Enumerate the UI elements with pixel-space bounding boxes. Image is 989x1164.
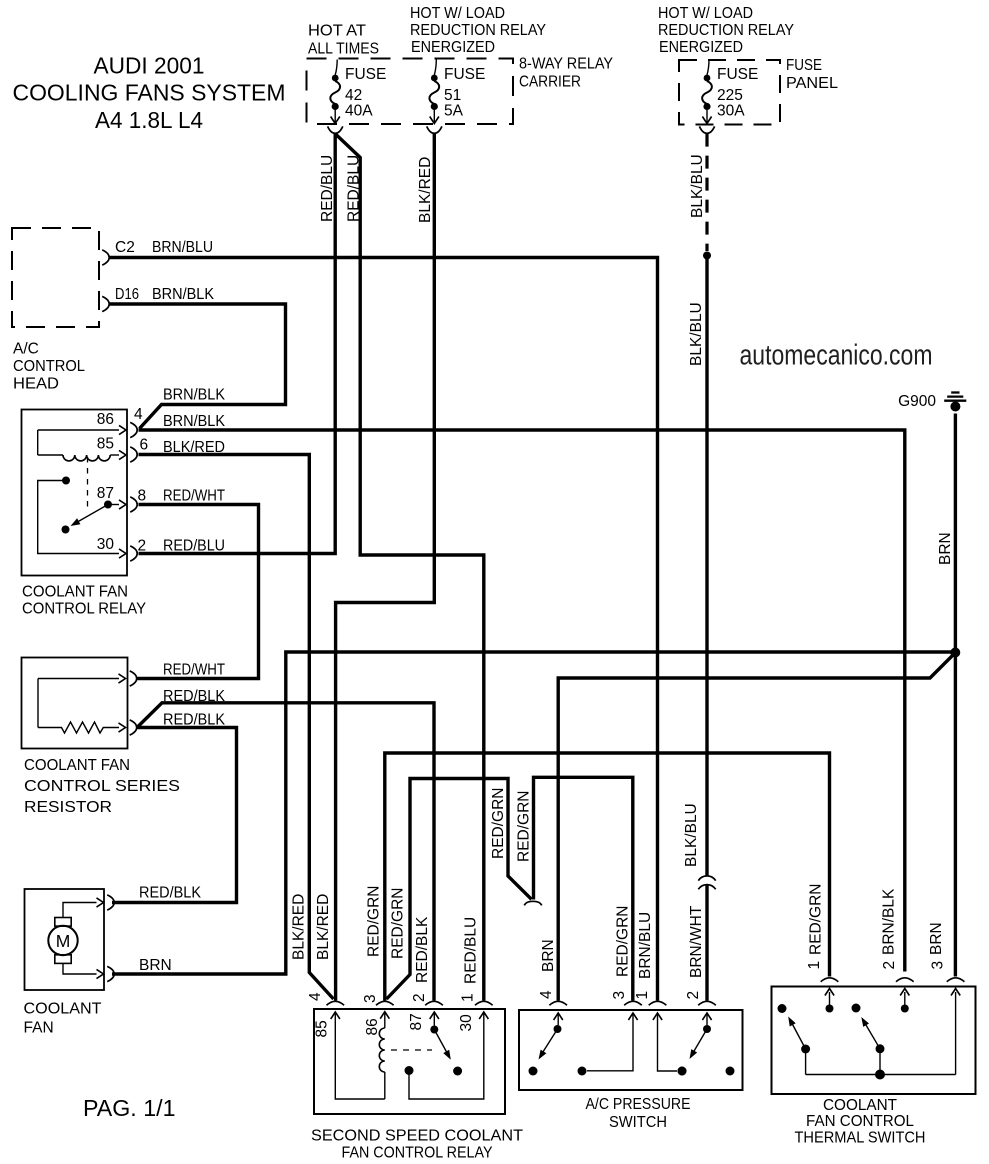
wire RED/BLU fuse42 branch to 2nd relay pin1 xyxy=(336,135,484,1001)
wire D16 BRN/BLK a/c head to relay pin4 xyxy=(109,304,286,429)
svg-text:RED/BLK: RED/BLK xyxy=(139,885,202,902)
svg-text:COOLANT: COOLANT xyxy=(24,1001,103,1018)
fan motor M xyxy=(48,926,77,955)
2nd relay pin2 connector xyxy=(425,1001,443,1005)
svg-text:FUSE: FUSE xyxy=(786,57,822,74)
ground G900 symbol xyxy=(951,391,959,393)
svg-text:G900: G900 xyxy=(898,393,936,410)
svg-text:FAN CONTROL: FAN CONTROL xyxy=(806,1113,914,1130)
second speed relay box xyxy=(314,1009,505,1114)
relay contact 30 path xyxy=(62,477,70,485)
2nd relay switch 87 xyxy=(430,1012,439,1019)
thermal pin3 connector xyxy=(947,978,965,982)
svg-text:ALL TIMES: ALL TIMES xyxy=(308,41,379,58)
svg-text:4: 4 xyxy=(134,406,143,423)
thermal switch arm 2 xyxy=(876,1044,885,1053)
svg-text:CONTROL SERIES: CONTROL SERIES xyxy=(24,778,180,795)
svg-text:2: 2 xyxy=(685,991,702,1000)
wire BRN junction to thermal switch pin3 xyxy=(954,655,957,977)
wire BLK/RED fuse51 to 2nd relay pin4 xyxy=(336,134,435,1001)
thermal pin2 terminal xyxy=(901,1005,909,1013)
relay coil row 85 with coil xyxy=(37,430,39,455)
svg-text:RED/WHT: RED/WHT xyxy=(163,662,225,679)
connector C2 xyxy=(102,250,109,265)
svg-text:4: 4 xyxy=(307,992,324,1001)
svg-text:85: 85 xyxy=(97,436,114,453)
svg-text:BRN: BRN xyxy=(139,957,172,974)
relay armature dashed link xyxy=(87,457,89,512)
resistor pin1 row xyxy=(38,678,119,680)
junction dot BLK/BLU xyxy=(703,252,711,260)
8-way relay carrier box xyxy=(307,59,514,125)
svg-text:225: 225 xyxy=(717,87,743,104)
svg-text:D16: D16 xyxy=(115,286,139,303)
pressure switch pin1 path xyxy=(653,1013,662,1020)
svg-text:FAN: FAN xyxy=(24,1020,54,1037)
fuse panel box xyxy=(679,60,780,125)
svg-text:AUDI 2001: AUDI 2001 xyxy=(94,53,205,79)
svg-text:RED/BLU: RED/BLU xyxy=(346,155,363,222)
svg-text:CARRIER: CARRIER xyxy=(519,74,581,91)
svg-text:4: 4 xyxy=(538,990,555,999)
2nd relay coil 86 xyxy=(380,1012,389,1019)
2nd relay pin1 connector xyxy=(475,1001,493,1005)
relay pin8 connector xyxy=(130,497,137,512)
svg-text:3: 3 xyxy=(611,991,628,1000)
pressure pin4 connector xyxy=(549,1001,567,1005)
coolant fan control relay box xyxy=(22,410,128,576)
svg-text:REDUCTION RELAY: REDUCTION RELAY xyxy=(658,22,794,39)
svg-text:BRN: BRN xyxy=(928,922,945,955)
svg-text:30: 30 xyxy=(458,1014,475,1032)
connector below fuse 42 xyxy=(328,126,343,133)
svg-text:1: 1 xyxy=(634,991,651,1000)
thermal switch contact dot a xyxy=(778,1004,787,1013)
pressure switch pin4 arm xyxy=(554,1013,563,1020)
svg-text:6: 6 xyxy=(140,437,149,454)
svg-text:REDUCTION RELAY: REDUCTION RELAY xyxy=(410,22,546,39)
svg-text:COOLANT: COOLANT xyxy=(823,1097,898,1114)
svg-text:CONTROL RELAY: CONTROL RELAY xyxy=(22,601,146,618)
svg-text:42: 42 xyxy=(345,87,362,104)
resistor pin1 connector xyxy=(130,671,137,686)
svg-text:FUSE: FUSE xyxy=(345,66,386,83)
svg-text:BLK/BLU: BLK/BLU xyxy=(689,154,706,218)
wire BRN coolant fan pin2 to ground junction xyxy=(112,652,953,974)
wire BLK/BLU fuse225 solid to inline connector xyxy=(705,256,708,876)
svg-text:THERMAL SWITCH: THERMAL SWITCH xyxy=(795,1130,926,1147)
svg-text:RED/GRN: RED/GRN xyxy=(366,886,383,957)
wire BLK/BLU fuse225 (dashed segment) xyxy=(705,134,708,251)
resistor element row xyxy=(37,679,39,728)
svg-text:3: 3 xyxy=(930,961,947,970)
fan pin1 lead xyxy=(63,903,97,918)
wire RED/BLK series resistor pin2 to 2nd relay pin2 (upper) xyxy=(138,703,434,1001)
svg-text:BRN/BLK: BRN/BLK xyxy=(152,286,215,303)
wire BLK/RED relay pin6 to 2nd relay pin4 xyxy=(139,455,334,1000)
coolant fan control series resistor box xyxy=(22,658,128,749)
svg-text:BLK/BLU: BLK/BLU xyxy=(683,803,700,867)
a/c control head box xyxy=(12,228,99,327)
wire C2 BRN/BLU a/c head to pressure switch pin1 xyxy=(109,258,658,1001)
svg-text:2: 2 xyxy=(881,961,898,970)
svg-text:RED/BLU: RED/BLU xyxy=(163,538,225,555)
2nd relay pin3 connector xyxy=(376,1001,394,1005)
svg-text:86: 86 xyxy=(364,1018,381,1035)
svg-text:30: 30 xyxy=(97,536,115,553)
relay coil terminal 86 row xyxy=(38,429,119,431)
svg-text:A4 1.8L L4: A4 1.8L L4 xyxy=(95,107,203,133)
pressure switch pin2 arm xyxy=(702,1013,711,1020)
svg-text:RED/GRN: RED/GRN xyxy=(615,906,632,977)
svg-text:BLK/BLU: BLK/BLU xyxy=(688,302,705,366)
svg-text:ENERGIZED: ENERGIZED xyxy=(659,39,743,56)
fan pin2 lead xyxy=(63,963,97,974)
svg-text:BLK/RED: BLK/RED xyxy=(163,439,225,456)
pressure pin1 connector xyxy=(649,1001,667,1005)
svg-text:FUSE: FUSE xyxy=(444,66,485,83)
svg-text:FUSE: FUSE xyxy=(717,66,758,83)
thermal pin2 connector xyxy=(896,978,914,982)
svg-text:PANEL: PANEL xyxy=(786,75,838,92)
svg-text:8: 8 xyxy=(138,488,147,505)
svg-text:HOT AT: HOT AT xyxy=(308,23,367,40)
thermal switch arm 1 xyxy=(801,1045,810,1054)
connector below fuse 51 xyxy=(427,126,442,133)
svg-text:8-WAY RELAY: 8-WAY RELAY xyxy=(519,56,613,73)
inline connector on BLK/BLU wire xyxy=(698,876,715,881)
fuse 42 40A xyxy=(335,60,337,76)
svg-text:BRN/BLK: BRN/BLK xyxy=(163,413,226,430)
svg-text:RED/GRN: RED/GRN xyxy=(516,791,533,862)
svg-text:BRN/WHT: BRN/WHT xyxy=(688,905,705,978)
svg-text:BLK/RED: BLK/RED xyxy=(315,894,332,960)
svg-text:40A: 40A xyxy=(345,103,373,120)
thermal switch box xyxy=(772,987,976,1095)
wire BRN junction to pressure switch pin4 xyxy=(558,655,953,1001)
2nd relay 85 terminal xyxy=(331,1012,340,1019)
relay pin2 connector xyxy=(130,546,137,561)
svg-text:87: 87 xyxy=(408,1013,425,1030)
wire BRN G900 to junction xyxy=(954,414,957,651)
svg-text:SECOND SPEED COOLANT: SECOND SPEED COOLANT xyxy=(311,1128,524,1145)
svg-text:30A: 30A xyxy=(717,103,745,120)
relay pin6 connector xyxy=(130,447,137,462)
ground junction dot xyxy=(950,648,960,658)
svg-text:PAG. 1/1: PAG. 1/1 xyxy=(83,1095,176,1121)
svg-text:51: 51 xyxy=(444,87,461,104)
connector below fuse 225 xyxy=(699,126,714,133)
svg-text:BRN/BLK: BRN/BLK xyxy=(881,888,898,955)
fan pin2 connector xyxy=(107,966,114,981)
svg-text:BLK/RED: BLK/RED xyxy=(291,894,308,960)
2nd relay pin4 connector xyxy=(327,1001,345,1005)
fan pin1 connector xyxy=(107,895,114,910)
svg-text:5A: 5A xyxy=(444,103,464,120)
svg-text:85: 85 xyxy=(314,1020,331,1037)
svg-text:A/C PRESSURE: A/C PRESSURE xyxy=(586,1096,691,1113)
svg-text:BRN: BRN xyxy=(540,939,557,972)
svg-text:RED/BLU: RED/BLU xyxy=(463,917,480,984)
svg-text:HOT W/ LOAD: HOT W/ LOAD xyxy=(658,5,753,22)
resistor pin2 connector xyxy=(130,720,137,735)
thermal switch common bus xyxy=(806,1074,956,1076)
relay contact 87 xyxy=(104,501,112,509)
svg-text:RESISTOR: RESISTOR xyxy=(24,799,112,816)
wire RED/BLK series resistor pin2 to coolant fan pin1 (lower) xyxy=(112,728,237,903)
svg-text:RED/BLK: RED/BLK xyxy=(163,712,226,729)
svg-text:M: M xyxy=(56,931,71,951)
svg-text:HEAD: HEAD xyxy=(13,376,59,393)
connector D16 xyxy=(102,296,109,311)
svg-text:A/C: A/C xyxy=(13,341,39,358)
svg-text:1: 1 xyxy=(806,961,823,970)
wire RED/BLU fuse42 to relay pin2 xyxy=(139,134,336,554)
2nd relay armature dashed link xyxy=(391,1049,432,1051)
coolant fan box xyxy=(25,889,105,990)
svg-text:BRN/BLK: BRN/BLK xyxy=(163,387,226,404)
svg-text:SWITCH: SWITCH xyxy=(609,1114,667,1131)
svg-text:2: 2 xyxy=(411,993,428,1002)
wire BRN/WHT to pressure switch pin2 xyxy=(705,886,708,1001)
svg-text:HOT W/ LOAD: HOT W/ LOAD xyxy=(410,5,505,22)
wire BRN/BLK relay pin4 to thermal switch pin2 xyxy=(139,430,905,972)
svg-text:1: 1 xyxy=(460,993,477,1002)
svg-text:BRN/BLU: BRN/BLU xyxy=(637,912,654,979)
wire RED/WHT relay pin8 to series resistor pin1 xyxy=(137,505,259,679)
svg-text:COOLING FANS SYSTEM: COOLING FANS SYSTEM xyxy=(13,80,286,106)
a/c pressure switch box xyxy=(519,1010,743,1090)
svg-text:RED/BLK: RED/BLK xyxy=(414,916,431,983)
pressure switch spare contact dot xyxy=(726,1067,735,1076)
pressure pin3 connector xyxy=(624,1001,642,1005)
thermal pin1 terminal xyxy=(826,1005,834,1013)
svg-text:BRN/BLU: BRN/BLU xyxy=(152,239,213,256)
fuse 225 30A xyxy=(707,60,709,76)
svg-text:COOLANT FAN: COOLANT FAN xyxy=(24,757,130,774)
svg-text:RED/GRN: RED/GRN xyxy=(808,884,825,955)
wire RED/GRN 2nd relay pin3 to splice xyxy=(387,779,532,1000)
wire RED/GRN 2nd relay pin3 to thermal switch pin1 xyxy=(385,753,830,1001)
svg-text:FAN CONTROL RELAY: FAN CONTROL RELAY xyxy=(342,1145,493,1162)
relay pin4 connector xyxy=(130,422,137,437)
svg-text:2: 2 xyxy=(138,538,147,555)
svg-text:BLK/RED: BLK/RED xyxy=(417,157,434,223)
svg-text:RED/GRN: RED/GRN xyxy=(390,888,407,959)
fuse 51 5A xyxy=(434,60,436,76)
thermal switch contact dot b xyxy=(852,1004,861,1013)
pressure switch pin3 path xyxy=(628,1013,637,1020)
svg-text:RED/BLU: RED/BLU xyxy=(319,155,336,222)
svg-text:BRN: BRN xyxy=(937,532,954,565)
splice connector arc xyxy=(524,901,542,905)
wire RED/GRN splice to pressure switch pin3 xyxy=(534,777,633,1000)
2nd relay contact 30 xyxy=(405,1066,414,1075)
svg-text:RED/GRN: RED/GRN xyxy=(490,788,507,859)
svg-text:CONTROL: CONTROL xyxy=(13,358,85,375)
svg-text:RED/BLK: RED/BLK xyxy=(163,688,226,705)
svg-text:87: 87 xyxy=(97,485,114,502)
thermal pin3 terminal xyxy=(955,992,957,1075)
thermal pin1 connector xyxy=(821,978,839,982)
svg-text:RED/WHT: RED/WHT xyxy=(163,488,225,505)
svg-text:3: 3 xyxy=(362,994,379,1003)
pressure pin2 connector xyxy=(698,1001,716,1005)
svg-text:86: 86 xyxy=(97,411,114,428)
svg-text:C2: C2 xyxy=(115,239,135,256)
svg-text:COOLANT FAN: COOLANT FAN xyxy=(22,584,128,601)
svg-text:ENERGIZED: ENERGIZED xyxy=(411,39,495,56)
svg-text:automecanico.com: automecanico.com xyxy=(740,340,933,372)
